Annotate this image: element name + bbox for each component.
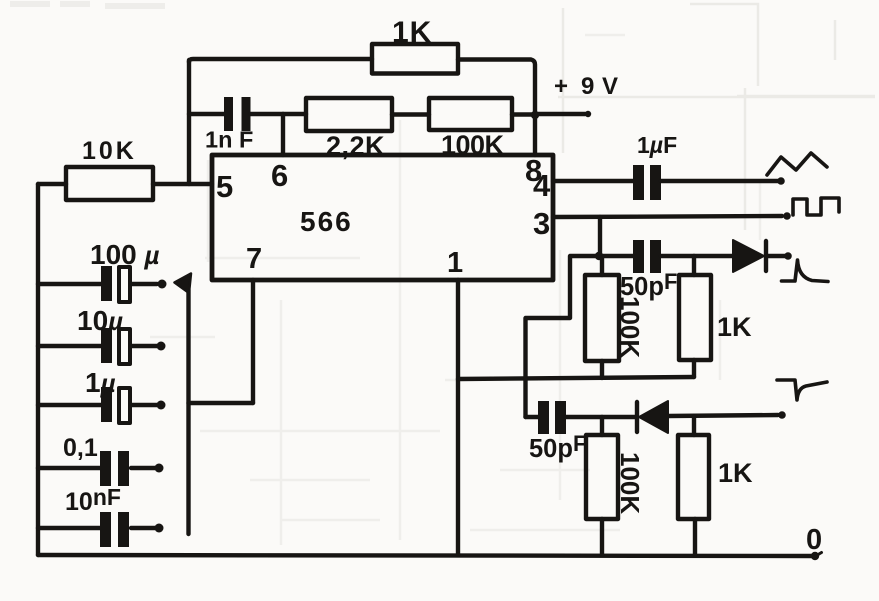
- node 10nF terminal: [155, 524, 164, 533]
- wire pin 8: [533, 115, 537, 155]
- node 100u terminal: [158, 280, 167, 289]
- svg-text:6: 6: [271, 158, 288, 193]
- resistor R 2,2K: [306, 98, 392, 131]
- svg-text:100K: 100K: [615, 452, 645, 514]
- wire 100K to +9V node: [512, 112, 535, 116]
- wire 50pF2 to diode2: [566, 415, 637, 419]
- wire diode2 to terminal: [668, 415, 778, 416]
- wire pin 7 vertical: [251, 280, 255, 403]
- wire 1K2 top stub: [692, 417, 696, 435]
- node 0 terminal: [811, 552, 819, 560]
- waveform icon negative spike: [777, 380, 827, 400]
- wire pin 1 vertical: [456, 280, 460, 555]
- node square output terminal: [783, 212, 791, 220]
- waveform icon square: [793, 198, 839, 215]
- svg-text:1K: 1K: [392, 16, 432, 49]
- node 0,1 terminal: [155, 464, 164, 473]
- svg-text:566: 566: [300, 206, 353, 237]
- wire 1K1 top stub: [692, 256, 696, 275]
- capacitor C 50pF (1): [633, 240, 661, 273]
- wire 10K to pin 5: [153, 182, 212, 186]
- wire top feedback horizontal: [189, 59, 372, 62]
- resistor R 100K (pulse2): [586, 435, 618, 519]
- wire 1nF to node pin6: [251, 112, 307, 116]
- svg-text:10K: 10K: [82, 137, 137, 165]
- svg-text:1K: 1K: [717, 312, 752, 342]
- wire bottom ground rail: [38, 555, 814, 556]
- capacitor C 10u: [101, 328, 112, 363]
- capacitor C 1nF: [224, 97, 251, 131]
- resistor R 100K (top): [429, 98, 512, 130]
- wire pin 4 output: [553, 179, 633, 183]
- capacitor C 10u row wire: [38, 344, 157, 348]
- diode D1: [733, 240, 764, 272]
- resistor R 1K (pulse1): [679, 275, 711, 360]
- svg-text:0: 0: [806, 524, 822, 556]
- resistor R 100K (pulse1): [585, 275, 619, 361]
- svg-text:10µ: 10µ: [77, 305, 123, 336]
- svg-text:1µ: 1µ: [85, 367, 116, 398]
- svg-text:7: 7: [246, 243, 262, 275]
- node 10u terminal: [157, 342, 166, 351]
- capacitor C 10nF row wire: [38, 526, 155, 530]
- node 1u terminal: [157, 401, 166, 410]
- node +9V junction: [531, 111, 539, 119]
- wire 100K1 top stub: [600, 256, 604, 275]
- node pulse1 terminal: [784, 252, 792, 260]
- resistor R 1K (top): [372, 44, 458, 74]
- wire pulse2 to cap: [526, 415, 539, 419]
- svg-text:100K: 100K: [441, 130, 505, 160]
- wire 100K2 bottom stub: [600, 519, 604, 555]
- wire left bus: [36, 184, 40, 555]
- wire 50pF to diode: [661, 254, 733, 258]
- wire +9V stub: [535, 112, 585, 116]
- node triangle output terminal: [777, 177, 785, 185]
- capacitor C 0,1: [100, 451, 129, 486]
- capacitor C 10nF: [100, 512, 129, 547]
- svg-text:1µF: 1µF: [637, 132, 677, 158]
- wire pin3 drop to pulse node: [598, 217, 602, 256]
- wire pin 3 output: [553, 216, 782, 217]
- wire 1nF branch: [189, 112, 225, 116]
- node pulse2 terminal: [778, 411, 786, 419]
- wire pulse1 node to cap: [599, 254, 633, 258]
- node +9V terminal: [585, 111, 591, 117]
- switch wiper wire: [186, 290, 190, 534]
- svg-text:5: 5: [216, 169, 233, 204]
- wire 1uF to triangle terminal: [661, 179, 778, 183]
- capacitor C 1u: [101, 387, 112, 422]
- svg-text:4: 4: [533, 168, 551, 203]
- svg-text:+9V: +9V: [554, 73, 618, 100]
- switch wiper arrow: [175, 274, 192, 294]
- waveform icon triangle: [767, 153, 827, 175]
- wire 1K1 bottom stub: [692, 360, 696, 377]
- capacitor C 1u row wire: [38, 403, 157, 407]
- svg-text:1n F: 1n F: [205, 127, 253, 153]
- wire 2,2K to 100K: [392, 112, 429, 116]
- capacitor C 1uF: [633, 165, 661, 200]
- wire 1K2 bottom stub: [693, 519, 697, 555]
- wire node to pin 6: [281, 114, 285, 155]
- capacitor C 100u row wire: [38, 282, 157, 286]
- capacitor C 0,1 row wire: [38, 466, 155, 470]
- svg-text:100 µ: 100 µ: [90, 239, 160, 270]
- op-amp U1 566 IC box: [212, 155, 553, 280]
- resistor R 1K (pulse2): [678, 435, 709, 519]
- svg-text:0,1: 0,1: [63, 434, 98, 462]
- wire 100K1 bottom stub: [600, 361, 604, 378]
- capacitor C 100u: [101, 266, 112, 301]
- waveform icon positive spike: [782, 260, 829, 282]
- svg-text:2,2K: 2,2K: [326, 131, 385, 161]
- wire diode to pulse terminal: [766, 254, 785, 258]
- wire bus to 10K: [38, 182, 66, 186]
- wire feedback left vertical: [187, 60, 191, 184]
- resistor R 10K: [66, 167, 153, 200]
- wire 100K2 top stub: [600, 417, 604, 435]
- svg-text:1K: 1K: [718, 458, 753, 488]
- wire staircase pulse2 feed: [526, 256, 600, 417]
- wire pin 7 to wiper: [189, 401, 254, 405]
- svg-text:1: 1: [447, 247, 463, 279]
- svg-text:100K: 100K: [615, 296, 645, 358]
- svg-text:3: 3: [533, 206, 550, 241]
- wire pulse1 ground rail: [458, 377, 694, 379]
- wire 1K to +9V bend: [458, 60, 535, 116]
- capacitor C 50pF (2): [538, 401, 566, 434]
- diode D2: [635, 402, 639, 432]
- node pulse1 junction: [595, 252, 603, 260]
